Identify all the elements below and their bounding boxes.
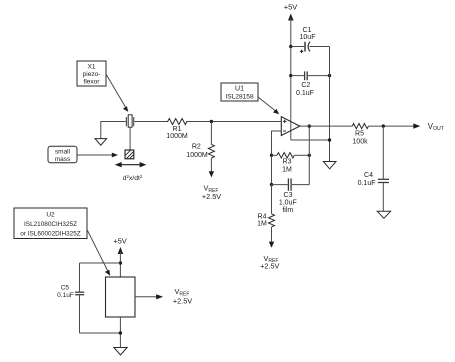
svg-text:+2.5V: +2.5V — [173, 297, 192, 306]
U1 label box — [221, 83, 258, 101]
small mass label box — [48, 146, 77, 163]
wire +5V rail x=291 — [290, 18, 292, 140]
svg-text:C5: C5 — [61, 284, 70, 291]
svg-text:10uF: 10uF — [300, 34, 316, 41]
node dot U2 top — [119, 261, 122, 264]
arrow Vout — [413, 123, 420, 128]
U2 device box — [106, 277, 136, 317]
leader arrow U1 — [258, 97, 279, 114]
svg-text:U1: U1 — [235, 86, 244, 93]
node dot C3 left — [270, 183, 273, 186]
svg-text:1000M: 1000M — [186, 152, 208, 159]
wire op-amp V- to ground rail y=140 — [291, 139, 330, 141]
capacitor C5 — [57, 284, 84, 299]
leader arrow X1 — [106, 74, 128, 112]
svg-text:R4: R4 — [258, 214, 267, 221]
wire U2 bottom rail — [80, 332, 121, 334]
wire feedback rail right x=309.3 — [308, 126, 310, 185]
motion double arrow — [115, 162, 147, 167]
resistor R2 — [186, 122, 214, 172]
svg-text:ISL21080CIH325Z: ISL21080CIH325Z — [24, 221, 77, 228]
resistor R3 — [272, 153, 310, 174]
svg-text:0.1uF: 0.1uF — [57, 292, 74, 299]
wire C4 top — [382, 126, 384, 179]
ground (input) — [95, 139, 107, 146]
svg-text:X1: X1 — [88, 63, 96, 70]
wire C2 right — [308, 75, 330, 77]
svg-text:1000M: 1000M — [166, 133, 188, 140]
svg-text:small: small — [55, 148, 71, 155]
wire +5V to U2 box — [119, 252, 121, 278]
leader arrow U2 — [87, 230, 110, 276]
arrow small mass to mass — [77, 153, 118, 158]
wire C4 bottom — [382, 183, 384, 211]
capacitor C3 — [272, 178, 310, 214]
node dot C2 left — [289, 74, 292, 77]
wire R5 to Vout — [368, 125, 414, 127]
+5V arrow (main rail) — [288, 14, 294, 21]
svg-text:C2: C2 — [301, 82, 310, 89]
wire input ground corner — [101, 122, 126, 139]
node dot C1 left — [289, 45, 292, 48]
wire U2 top to C5 rail — [80, 262, 121, 264]
+5V arrow (U2) — [118, 247, 124, 254]
node dot supply/ground junction — [328, 138, 331, 141]
node dot R3 left — [270, 154, 273, 157]
svg-text:+2.5V: +2.5V — [202, 192, 221, 201]
label VREF +2.5V (R4) — [260, 254, 279, 271]
svg-text:+5V: +5V — [113, 237, 127, 246]
svg-text:+2.5V: +2.5V — [260, 261, 279, 270]
ground (U2) — [114, 348, 127, 356]
svg-text:C3: C3 — [284, 192, 293, 199]
wire feedback rail mid — [271, 155, 273, 184]
svg-text:C1: C1 — [303, 27, 312, 34]
svg-text:piezo-: piezo- — [83, 71, 101, 78]
wire C1 right — [310, 46, 330, 48]
svg-text:100k: 100k — [352, 138, 368, 145]
wire C1 left — [291, 46, 305, 48]
wire feedback rail to R4 — [271, 185, 273, 214]
svg-text:mass: mass — [55, 156, 71, 163]
svg-text:ISL28158: ISL28158 — [225, 94, 254, 101]
piezo element X1 — [126, 115, 133, 127]
svg-text:R2: R2 — [192, 144, 201, 151]
arrow R4 to VREF — [269, 242, 274, 248]
node dot Vout/C4 — [382, 124, 385, 127]
ground (op-amp supply) — [323, 162, 336, 169]
resistor R1 — [166, 119, 188, 140]
resistor R4 — [257, 214, 274, 242]
node dot C2 right — [328, 74, 331, 77]
wire U2 box to ground — [119, 317, 121, 348]
node dot U2 bottom — [119, 331, 122, 334]
node dot op-amp output — [308, 124, 311, 127]
arrow U2 output — [135, 294, 163, 299]
mass (hatched square) — [125, 150, 134, 159]
svg-text:0.1uF: 0.1uF — [296, 90, 314, 97]
capacitor C2 — [296, 71, 314, 97]
svg-text:or ISL60002DIH325Z: or ISL60002DIH325Z — [20, 230, 80, 237]
svg-text:C4: C4 — [364, 172, 373, 179]
U2 label box — [14, 208, 87, 239]
svg-text:1.0uF: 1.0uF — [279, 200, 297, 207]
svg-text:1M: 1M — [282, 166, 292, 173]
svg-text:R3: R3 — [283, 159, 292, 166]
resistor R5 — [352, 124, 368, 146]
wire piezo to mass — [129, 127, 131, 150]
op-amp U1 — [281, 117, 300, 136]
wire ground rail x=329.5 — [329, 47, 331, 162]
svg-text:1M: 1M — [257, 221, 267, 228]
X1 label box — [77, 61, 106, 86]
svg-text:flexor: flexor — [84, 78, 101, 85]
capacitor C1 — [300, 27, 316, 53]
node dot R3 right — [308, 154, 311, 157]
label VREF +2.5V (R2) — [202, 184, 221, 201]
label VREF +2.5V (U2 output) — [173, 287, 192, 306]
svg-text:d2x/dt2: d2x/dt2 — [123, 174, 143, 182]
capacitor C4 — [358, 172, 389, 187]
ground (C4) — [377, 211, 390, 218]
svg-text:R5: R5 — [355, 131, 364, 138]
wire piezo to R1 — [134, 121, 166, 123]
svg-text:0.1uF: 0.1uF — [358, 180, 376, 187]
wire C5 rail lower — [79, 295, 81, 333]
wire C2 left — [291, 75, 304, 77]
wire op-amp output to R5 — [300, 125, 353, 127]
wire R1 to op-amp plus input — [187, 121, 281, 123]
node dot R2 top — [210, 120, 213, 123]
svg-text:+5V: +5V — [284, 3, 298, 12]
svg-text:film: film — [282, 207, 293, 214]
wire op-amp minus input — [272, 131, 282, 155]
svg-text:U2: U2 — [46, 212, 55, 219]
arrow R2 to VREF — [209, 171, 214, 177]
wire C5 rail upper — [79, 263, 81, 292]
